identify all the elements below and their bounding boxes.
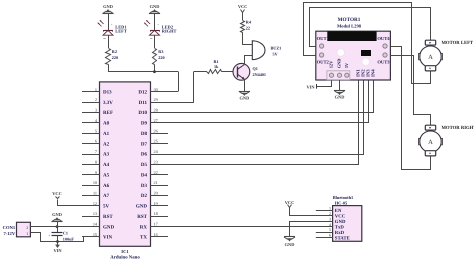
svg-text:TxD: TxD bbox=[335, 224, 345, 230]
svg-text:C1: C1 bbox=[63, 231, 68, 236]
svg-text:22: 22 bbox=[154, 170, 158, 175]
svg-text:A2: A2 bbox=[103, 141, 110, 147]
svg-text:12V: 12V bbox=[329, 60, 334, 68]
svg-text:RxD: RxD bbox=[335, 230, 345, 236]
svg-text:3: 3 bbox=[95, 108, 97, 113]
svg-text:MOTOR1: MOTOR1 bbox=[338, 17, 361, 23]
svg-text:A: A bbox=[428, 54, 433, 61]
svg-text:1k: 1k bbox=[214, 64, 219, 69]
svg-text:11: 11 bbox=[93, 191, 97, 196]
svg-text:A3: A3 bbox=[103, 152, 110, 158]
svg-text:15: 15 bbox=[93, 232, 97, 237]
svg-text:OUT1: OUT1 bbox=[317, 36, 330, 41]
svg-text:D11: D11 bbox=[139, 100, 148, 106]
svg-text:D4: D4 bbox=[141, 172, 148, 178]
svg-text:1: 1 bbox=[26, 231, 28, 236]
svg-text:7-12V: 7-12V bbox=[3, 231, 15, 236]
svg-text:RST: RST bbox=[103, 214, 113, 220]
svg-text:VCC: VCC bbox=[238, 4, 248, 9]
svg-text:5V: 5V bbox=[273, 51, 278, 56]
svg-text:D6: D6 bbox=[141, 152, 148, 158]
svg-text:13: 13 bbox=[93, 211, 97, 216]
svg-text:GND: GND bbox=[240, 96, 250, 101]
svg-text:1: 1 bbox=[329, 205, 331, 210]
svg-text:GND: GND bbox=[335, 94, 345, 99]
svg-text:1: 1 bbox=[95, 87, 97, 92]
svg-text:Bluetooth1: Bluetooth1 bbox=[333, 195, 354, 200]
svg-text:D10: D10 bbox=[138, 110, 147, 116]
svg-text:5: 5 bbox=[329, 227, 331, 232]
svg-text:GND: GND bbox=[103, 224, 115, 230]
svg-text:GND: GND bbox=[337, 59, 342, 69]
svg-text:R3: R3 bbox=[158, 49, 163, 54]
svg-text:23: 23 bbox=[154, 159, 158, 164]
svg-text:BUZ1: BUZ1 bbox=[271, 45, 282, 50]
svg-text:RST: RST bbox=[137, 214, 147, 220]
svg-text:IN3: IN3 bbox=[365, 69, 371, 77]
svg-text:22: 22 bbox=[246, 25, 250, 30]
svg-text:VIN: VIN bbox=[306, 84, 315, 89]
svg-text:220: 220 bbox=[158, 55, 164, 60]
svg-text:RIGHT: RIGHT bbox=[162, 29, 177, 34]
svg-text:100uF: 100uF bbox=[63, 237, 75, 242]
svg-text:OUT3: OUT3 bbox=[377, 59, 390, 64]
svg-text:VCC: VCC bbox=[335, 213, 346, 219]
svg-text:OUT4: OUT4 bbox=[377, 36, 390, 41]
svg-text:VIN: VIN bbox=[53, 248, 62, 253]
svg-text:A6: A6 bbox=[103, 183, 110, 189]
svg-text:25: 25 bbox=[154, 139, 158, 144]
svg-text:STATE: STATE bbox=[335, 235, 350, 241]
svg-text:18: 18 bbox=[154, 211, 158, 216]
svg-text:GND: GND bbox=[335, 219, 346, 225]
svg-text:VCC: VCC bbox=[52, 191, 62, 196]
svg-text:3: 3 bbox=[329, 216, 331, 221]
svg-text:CON1: CON1 bbox=[3, 225, 16, 230]
svg-text:16: 16 bbox=[154, 232, 158, 237]
svg-text:RX: RX bbox=[140, 224, 148, 230]
svg-text:D3: D3 bbox=[141, 183, 148, 189]
svg-text:9: 9 bbox=[95, 170, 97, 175]
svg-text:19: 19 bbox=[154, 201, 158, 206]
svg-text:GND: GND bbox=[103, 4, 113, 9]
svg-text:5V: 5V bbox=[344, 62, 349, 68]
svg-text:8: 8 bbox=[95, 159, 97, 164]
svg-text:6: 6 bbox=[95, 139, 97, 144]
svg-text:17: 17 bbox=[154, 222, 158, 227]
svg-text:D7: D7 bbox=[141, 141, 148, 147]
svg-text:D8: D8 bbox=[141, 131, 148, 137]
svg-text:D2: D2 bbox=[141, 193, 148, 199]
svg-text:3.3V: 3.3V bbox=[103, 100, 113, 106]
svg-text:A: A bbox=[428, 139, 433, 146]
svg-text:A5: A5 bbox=[103, 172, 110, 178]
svg-text:GND: GND bbox=[150, 4, 160, 9]
svg-text:6: 6 bbox=[329, 233, 331, 238]
svg-text:A4: A4 bbox=[103, 162, 110, 168]
svg-text:28: 28 bbox=[154, 108, 158, 113]
svg-text:+: + bbox=[157, 23, 159, 27]
svg-text:GND: GND bbox=[52, 212, 62, 217]
svg-text:VIN: VIN bbox=[103, 235, 113, 241]
svg-text:A1: A1 bbox=[103, 131, 110, 137]
svg-text:D12: D12 bbox=[138, 90, 147, 96]
svg-text:7: 7 bbox=[95, 149, 97, 154]
svg-text:R4: R4 bbox=[246, 20, 252, 25]
svg-text:26: 26 bbox=[154, 128, 158, 133]
svg-text:21: 21 bbox=[154, 180, 158, 185]
svg-text:EN: EN bbox=[335, 208, 342, 214]
svg-text:A7: A7 bbox=[103, 193, 110, 199]
svg-text:Modul L298: Modul L298 bbox=[337, 24, 362, 29]
svg-text:HC-05: HC-05 bbox=[335, 200, 348, 205]
svg-text:4: 4 bbox=[329, 222, 331, 227]
svg-text:2N4401: 2N4401 bbox=[253, 72, 267, 77]
svg-text:IC1: IC1 bbox=[121, 249, 129, 254]
svg-text:GND: GND bbox=[285, 242, 295, 247]
svg-text:+: + bbox=[111, 23, 113, 27]
svg-text:R2: R2 bbox=[112, 49, 117, 54]
svg-text:10: 10 bbox=[93, 180, 97, 185]
svg-text:REF: REF bbox=[103, 110, 113, 116]
svg-text:IN4: IN4 bbox=[371, 69, 377, 77]
svg-text:D5: D5 bbox=[141, 162, 148, 168]
svg-text:Arduino Nano: Arduino Nano bbox=[110, 254, 140, 260]
svg-text:D9: D9 bbox=[141, 121, 148, 127]
svg-text:LEFT: LEFT bbox=[115, 29, 127, 34]
svg-text:TX: TX bbox=[140, 235, 147, 241]
svg-text:A0: A0 bbox=[103, 121, 110, 127]
svg-text:2: 2 bbox=[26, 225, 28, 230]
svg-text:220: 220 bbox=[112, 55, 118, 60]
svg-text:5: 5 bbox=[95, 128, 97, 133]
svg-text:VCC: VCC bbox=[285, 200, 295, 205]
svg-text:2: 2 bbox=[95, 97, 97, 102]
svg-text:GND: GND bbox=[136, 204, 148, 210]
svg-text:D13: D13 bbox=[103, 90, 112, 96]
svg-text:MOTOR LEFT: MOTOR LEFT bbox=[442, 40, 474, 46]
svg-text:MOTOR RIGHT: MOTOR RIGHT bbox=[442, 125, 474, 131]
svg-text:Q1: Q1 bbox=[253, 66, 258, 71]
svg-text:5V: 5V bbox=[103, 204, 110, 210]
svg-text:20: 20 bbox=[154, 191, 158, 196]
svg-text:29: 29 bbox=[154, 97, 158, 102]
